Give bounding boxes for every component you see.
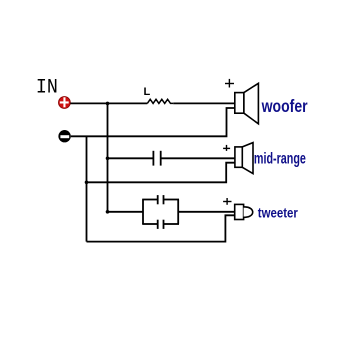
node A junction dot (106, 102, 110, 106)
svg-text:L: L (144, 86, 151, 98)
polarity + tweeter (223, 198, 231, 205)
node B junction dot (106, 157, 110, 161)
wire tweeter branch left (108, 211, 144, 213)
wire tweeter branch right (178, 211, 235, 213)
polarity + woofer (225, 79, 234, 88)
polarity + mid-range (223, 145, 230, 151)
svg-text:woofer: woofer (261, 96, 308, 116)
terminal + (red) (59, 97, 71, 109)
svg-text:tweeter: tweeter (258, 205, 298, 221)
wire mid branch right (161, 157, 235, 159)
wire tweeter return (87, 215, 235, 241)
wire mid-range return (87, 163, 236, 183)
speaker woofer (235, 83, 259, 124)
wire + bus vertical (107, 103, 109, 211)
wire mid branch left (108, 157, 154, 159)
capacitor C2 (tweeter top) (158, 195, 164, 204)
wire from inductor to woofer (173, 102, 235, 104)
label IN (36, 76, 58, 99)
wire + from terminal to inductor (70, 102, 147, 104)
svg-text:mid-range: mid-range (254, 151, 306, 168)
capacitor C1 (mid-range) (153, 151, 160, 166)
speaker mid-range (235, 143, 253, 174)
node D junction dot (85, 181, 89, 185)
node C junction dot (106, 210, 110, 214)
wire - bus vertical (86, 136, 88, 241)
tweeter filter frame (parallel branches) (142, 200, 179, 225)
capacitor C3 (tweeter bottom) (158, 220, 164, 229)
speaker tweeter (235, 204, 253, 219)
svg-text:IN: IN (36, 76, 58, 99)
wire - from terminal to woofer return (71, 108, 235, 136)
terminal - (black) (58, 130, 70, 142)
inductor L (147, 99, 173, 103)
